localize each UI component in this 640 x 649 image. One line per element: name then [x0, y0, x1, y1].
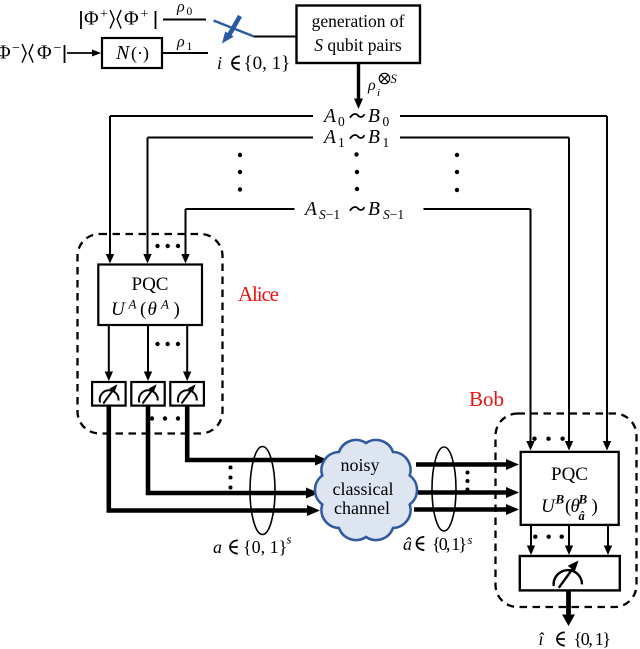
- svg-text:1: 1: [338, 135, 345, 150]
- svg-text:U: U: [111, 299, 126, 320]
- svg-text:A: A: [160, 297, 169, 312]
- svg-text:): ): [592, 496, 598, 517]
- svg-text:B: B: [555, 492, 565, 507]
- svg-text:PQC: PQC: [551, 464, 588, 485]
- svg-text:â: â: [403, 534, 412, 554]
- svg-text:{0, 1}: {0, 1}: [243, 537, 287, 557]
- svg-text:s: s: [468, 533, 473, 547]
- svg-text:0: 0: [383, 114, 390, 129]
- svg-text:S: S: [391, 72, 398, 86]
- svg-text:(: (: [140, 299, 146, 320]
- svg-text:N: N: [115, 42, 131, 64]
- svg-text:): ): [174, 299, 180, 320]
- svg-text:A: A: [322, 127, 336, 148]
- svg-text:A: A: [303, 199, 317, 220]
- svg-text:B: B: [578, 492, 588, 507]
- svg-text:+: +: [100, 7, 108, 22]
- svg-text:+: +: [141, 7, 149, 22]
- svg-text:θ: θ: [148, 299, 157, 320]
- svg-text:S−1: S−1: [319, 207, 340, 222]
- svg-text:Alice: Alice: [238, 282, 279, 306]
- svg-text:(·): (·): [131, 43, 149, 64]
- svg-text:Φ: Φ: [37, 42, 52, 64]
- svg-text:0: 0: [338, 114, 345, 129]
- svg-text:channel: channel: [334, 498, 390, 518]
- svg-text:ρ: ρ: [367, 77, 376, 94]
- svg-text:i: i: [217, 53, 222, 73]
- svg-text:1: 1: [187, 41, 193, 53]
- svg-text:−: −: [54, 41, 62, 56]
- svg-text:s: s: [287, 533, 292, 547]
- svg-text:S qubit pairs: S qubit pairs: [314, 35, 402, 55]
- svg-text:â: â: [579, 509, 585, 523]
- svg-text:{0, 1}: {0, 1}: [574, 629, 612, 649]
- svg-text:i: i: [377, 87, 380, 99]
- svg-text:−: −: [12, 41, 20, 56]
- svg-text:A: A: [128, 297, 137, 312]
- svg-text:noisy: noisy: [340, 455, 379, 475]
- svg-text:classical: classical: [333, 479, 394, 499]
- svg-text:PQC: PQC: [132, 274, 169, 295]
- svg-text:generation of: generation of: [312, 11, 405, 31]
- svg-text:î: î: [539, 629, 545, 649]
- svg-text:B: B: [368, 106, 380, 127]
- svg-text:a: a: [213, 537, 222, 557]
- svg-text:Bob: Bob: [469, 387, 504, 411]
- svg-text:Φ: Φ: [124, 8, 139, 30]
- svg-text:ρ: ρ: [176, 0, 185, 16]
- svg-text:B: B: [368, 127, 380, 148]
- svg-text:A: A: [322, 106, 336, 127]
- svg-text:{0, 1}: {0, 1}: [432, 534, 467, 554]
- svg-text:ρ: ρ: [176, 34, 185, 51]
- svg-text:0: 0: [187, 6, 193, 18]
- svg-text:{0, 1}: {0, 1}: [244, 53, 291, 74]
- svg-text:Φ: Φ: [84, 8, 99, 30]
- svg-text:S−1: S−1: [383, 207, 404, 222]
- svg-text:Φ: Φ: [0, 42, 11, 64]
- svg-text:B: B: [368, 199, 380, 220]
- svg-text:1: 1: [383, 135, 390, 150]
- svg-text:U: U: [541, 496, 556, 517]
